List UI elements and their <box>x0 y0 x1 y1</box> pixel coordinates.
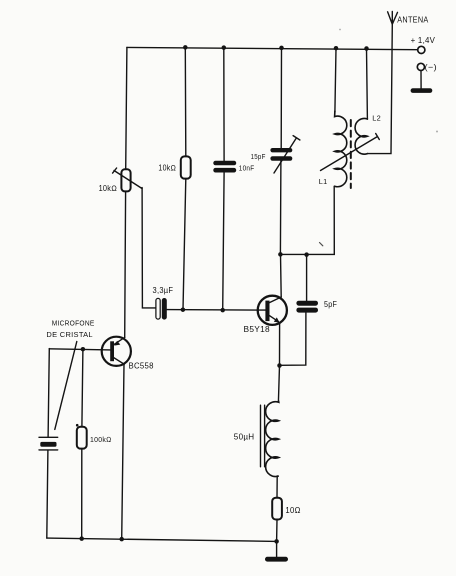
wire C1 down to base line <box>223 173 224 310</box>
svg-text:+ 1,4V: + 1,4V <box>411 35 436 45</box>
svg-text:10kΩ: 10kΩ <box>158 164 176 173</box>
wire rail to C1 10nF <box>223 48 225 161</box>
transformer core dashed <box>350 120 352 188</box>
node rail-10nF <box>222 45 227 50</box>
svg-text:100kΩ: 100kΩ <box>90 435 112 444</box>
wire node down to 5pF <box>306 255 308 301</box>
wire 100k column lower <box>81 449 83 539</box>
wire 15pF to collector node <box>279 161 282 255</box>
terminal +1,4V <box>418 46 425 53</box>
trimpot wiper arrow <box>113 168 142 189</box>
wire minus terminal to ground <box>420 71 422 89</box>
resistor R4 10ohm body <box>272 498 282 520</box>
wire L3 to R4 <box>276 476 278 498</box>
capacitor C3 3,3uF plate hollow <box>156 298 160 319</box>
svg-text:L2: L2 <box>372 114 381 123</box>
capacitor C4 5pF <box>296 301 318 313</box>
node rail-L1 <box>334 46 339 51</box>
ground battery-negative <box>411 88 433 93</box>
wire bottom rail <box>47 538 277 541</box>
wire rail to trimpot <box>126 47 127 169</box>
wire base line to BC558 <box>49 349 110 350</box>
svg-text:10Ω: 10Ω <box>285 505 301 515</box>
trimmer capacitor C2 15pF <box>270 148 292 161</box>
wire emitter node to 5pF bottom <box>280 313 306 366</box>
L3 core lines <box>261 405 265 467</box>
node base-10nF <box>220 308 225 313</box>
svg-text:10nF: 10nF <box>239 164 255 173</box>
ink speck at resistor top <box>76 424 79 427</box>
wire 100k column upper <box>82 349 83 427</box>
wire stub to ground <box>276 541 278 557</box>
arrow variable coupling <box>321 134 380 171</box>
svg-text:ANTENA: ANTENA <box>397 15 429 24</box>
node base-100k <box>81 347 86 352</box>
resistor R2 10k body <box>181 156 191 178</box>
node ground junction <box>274 539 279 544</box>
svg-text:B5Y18: B5Y18 <box>244 325 271 334</box>
inductor L2 <box>355 118 367 154</box>
svg-text:(−): (−) <box>425 62 437 72</box>
wire trimpot wiper down to 3,3uF <box>142 188 156 308</box>
transistor Q2 B5Y18 <box>258 296 287 325</box>
svg-text:15pF: 15pF <box>251 152 266 161</box>
stray speck 2 <box>436 131 438 133</box>
capacitor C1 10nF <box>213 161 236 173</box>
wire mic column upper <box>48 349 49 437</box>
wire mic column lower <box>47 451 48 538</box>
svg-text:MICROFONE: MICROFONE <box>52 318 95 327</box>
svg-text:5pF: 5pF <box>324 300 337 309</box>
svg-text:50µH: 50µH <box>234 432 255 441</box>
node collector junction <box>278 252 283 257</box>
svg-text:3,3µF: 3,3µF <box>153 286 174 295</box>
wire collector node to L1 bottom <box>280 186 334 254</box>
svg-text:10kΩ: 10kΩ <box>99 184 118 193</box>
wire rail to trimmer cap <box>280 48 282 148</box>
resistor R3 100k body <box>77 427 87 449</box>
wire top supply rail <box>127 47 418 49</box>
stray speck 1 <box>339 29 341 31</box>
wire rail to L1 <box>335 48 336 112</box>
wire rail to R2 10k <box>184 47 187 156</box>
wire R2 to base line <box>183 179 186 310</box>
terminal (-) <box>417 63 424 70</box>
stray mark tick <box>320 243 323 246</box>
wire R4 to ground node <box>276 520 278 542</box>
wire C3 to Q2 base <box>167 309 266 312</box>
wire rail to L2 <box>366 49 369 120</box>
wire Q2 collector up <box>280 254 283 297</box>
svg-text:L1: L1 <box>319 177 328 186</box>
node 5pF top junction <box>304 252 309 257</box>
node rail-100k <box>79 536 84 541</box>
wire trimpot to BC558 emitter <box>124 191 127 337</box>
node rail-BC558 <box>119 537 124 542</box>
label pointer line <box>55 342 77 430</box>
node rail-10k <box>183 45 188 50</box>
inductor L1 <box>335 111 347 187</box>
trimpot R1 10k body <box>121 169 130 191</box>
node base-10k <box>181 307 186 312</box>
microphone element <box>39 437 58 450</box>
node emitter junction <box>277 363 282 368</box>
node rail-L2 <box>364 46 369 51</box>
antenna <box>388 12 398 25</box>
wire antenna mast down to L2 tap <box>367 24 392 153</box>
wire BC558 collector down <box>122 365 124 540</box>
ground main <box>265 557 288 562</box>
svg-text:BC558: BC558 <box>129 361 154 370</box>
transistor Q1 BC558 <box>102 337 131 366</box>
wire emitter node down to L3 <box>278 366 279 403</box>
node rail-15pF <box>279 46 284 51</box>
trimmer cap arrow <box>274 136 300 173</box>
inductor L3 50uH <box>266 401 279 477</box>
capacitor C3 3,3uF plate solid <box>162 298 167 320</box>
svg-text:DE CRISTAL: DE CRISTAL <box>46 330 93 339</box>
wire Q2 emitter down <box>279 324 281 366</box>
